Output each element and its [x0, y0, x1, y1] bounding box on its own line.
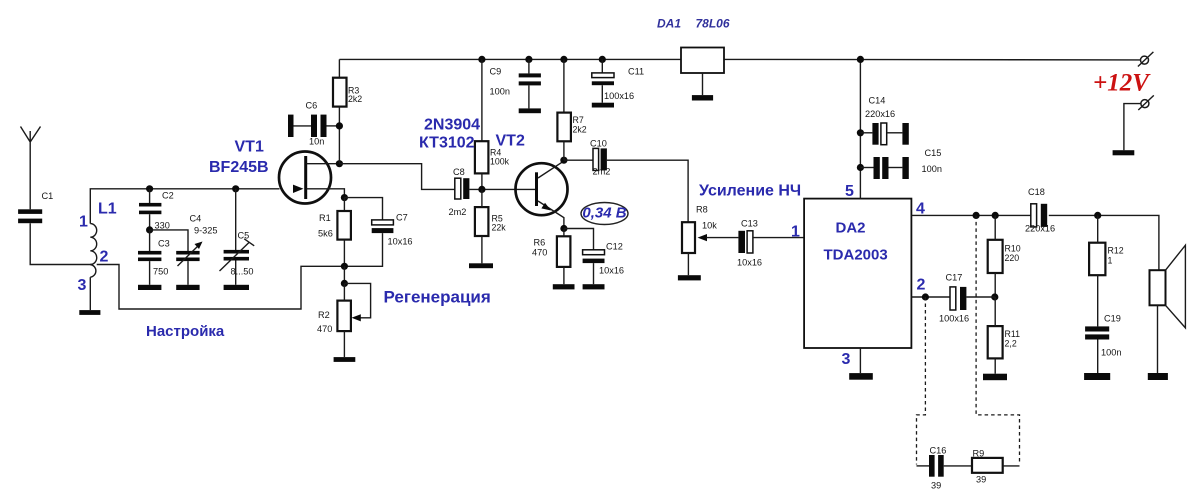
capacitor C2 330 [139, 191, 174, 231]
svg-text:R8: R8 [696, 205, 708, 215]
terminal ground return [1138, 95, 1154, 110]
wire VT1 drain [307, 163, 340, 165]
svg-text:2N3904: 2N3904 [424, 117, 480, 134]
wire wiper node into R2 [343, 283, 345, 300]
wire R12 to C19 [1097, 275, 1099, 326]
wire C12 to ground [593, 263, 595, 284]
capacitor C17 100x16 [939, 273, 969, 324]
svg-text:470: 470 [532, 248, 547, 258]
capacitor C13 10x16 [737, 219, 762, 268]
wire rail to R4 [481, 59, 483, 141]
svg-text:R6: R6 [534, 238, 546, 248]
svg-text:C7: C7 [396, 213, 408, 223]
capacitor C8 2m2 [449, 167, 470, 217]
node R2 wiper junction [341, 280, 348, 287]
svg-text:R10: R10 [1005, 244, 1021, 254]
wire R8 wiper to C13 [707, 237, 739, 239]
wire C8 to base node [469, 188, 536, 190]
capacitor C16 39 [917, 446, 947, 491]
wire R6 to ground [563, 267, 565, 284]
wire C5 branch [235, 189, 237, 250]
ground under DA1 [692, 95, 713, 100]
regulator DA1 78L06 [657, 17, 730, 74]
wire base node to R5 [481, 189, 483, 207]
wire R3 to drain [338, 107, 340, 164]
wire C7 to junction [344, 233, 382, 266]
wire C2 to C3 junction [149, 214, 151, 230]
capacitor C4 9-325 variable [176, 214, 217, 267]
resistor R10 220 [988, 240, 1021, 273]
ground under C5 [224, 285, 249, 290]
svg-text:C19: C19 [1104, 314, 1121, 324]
node C5 top junction [232, 185, 239, 192]
wire R2 to ground [343, 331, 345, 357]
resistor R12 1 [1089, 243, 1124, 276]
speaker BA1 [1150, 245, 1186, 328]
wire rail corner to R3 [338, 59, 340, 77]
node C6/R3 junction [336, 122, 343, 129]
inductor L1 [78, 201, 117, 295]
node rail pin5 [857, 56, 864, 63]
svg-text:VT2: VT2 [496, 133, 525, 150]
capacitor C9 100n [490, 67, 541, 97]
svg-text:C10: C10 [590, 139, 607, 149]
svg-text:330: 330 [155, 221, 170, 231]
svg-text:1: 1 [791, 224, 800, 241]
svg-text:КТ3102: КТ3102 [419, 135, 475, 152]
resistor R5 22k [475, 207, 506, 236]
wire junction to wiper node [343, 266, 345, 283]
wire R10 bottom to node [994, 273, 996, 297]
svg-text:C16: C16 [930, 446, 947, 456]
node VT1 source junction [341, 194, 348, 201]
svg-text:100k: 100k [490, 157, 510, 167]
wire L1 top to gate rail [90, 189, 279, 224]
svg-text:C5: C5 [238, 231, 250, 241]
wire R12 top [1097, 215, 1099, 242]
svg-text:220x16: 220x16 [1025, 224, 1055, 234]
svg-text:R2: R2 [318, 310, 330, 320]
svg-text:22k: 22k [492, 223, 507, 233]
wire C19 to ground [1097, 340, 1099, 374]
svg-text:C18: C18 [1028, 187, 1045, 197]
node VT2 collector junction [560, 157, 567, 164]
ground under C12 [583, 284, 605, 289]
svg-text:470: 470 [317, 324, 332, 334]
svg-text:Настройка: Настройка [146, 323, 225, 340]
node base junction [478, 186, 485, 193]
terminal +12V [1138, 52, 1154, 67]
wire C10 to R8 [607, 160, 688, 222]
ground under C3 [138, 285, 161, 290]
wire drain to C8 [339, 164, 454, 190]
node C14 branch [857, 129, 864, 136]
svg-text:C13: C13 [741, 219, 758, 229]
svg-text:1: 1 [79, 214, 88, 231]
capacitor C6 10n [288, 101, 339, 147]
svg-text:0,34 В: 0,34 В [582, 205, 626, 222]
svg-text:2,2: 2,2 [1005, 339, 1017, 349]
svg-text:C9: C9 [490, 67, 502, 77]
wire node to R11 [994, 297, 996, 326]
wire DA1 to ground [702, 73, 704, 95]
wire DA2 pin2 [911, 296, 949, 298]
ground under DA2 [849, 373, 873, 380]
node R1/C7/bus junction [341, 263, 348, 270]
svg-text:+12V: +12V [1093, 70, 1151, 97]
capacitor C18 220x16 [1025, 187, 1055, 234]
resistor R9 39 [972, 449, 1003, 485]
transistor VT2 [496, 133, 568, 229]
node VT2 emitter junction [560, 225, 567, 232]
wire R7 to collector [563, 141, 565, 160]
svg-text:C14: C14 [869, 96, 886, 106]
wire C1 to L1 tap2 [30, 223, 93, 264]
node C2 top junction [146, 185, 153, 192]
wire wiper loop [344, 283, 370, 317]
dashed wire pin4 to R9 [976, 215, 1019, 464]
node R12 branch [1094, 212, 1101, 219]
wire junction to C3 [149, 230, 151, 251]
svg-text:C2: C2 [162, 191, 174, 201]
svg-text:2k2: 2k2 [573, 125, 587, 135]
capacitor C12 10x16 [583, 242, 624, 276]
wire emitter node to R6 [563, 229, 565, 237]
IC DA2 TDA2003 [804, 199, 911, 348]
wire C11 to ground [601, 85, 603, 103]
resistor R6 470 [532, 236, 570, 267]
dashed wire pin2 to C16 [917, 297, 926, 465]
wire C9 to ground [528, 85, 530, 108]
svg-text:100n: 100n [490, 87, 510, 97]
svg-text:TDA2003: TDA2003 [824, 247, 888, 264]
svg-text:220: 220 [1005, 253, 1020, 263]
resistor R1 5k6 [318, 211, 351, 240]
wire C2 branch [149, 189, 151, 203]
wire R1 to junction [343, 240, 345, 267]
node 0.34V annotation [581, 203, 628, 225]
wire emitter node to C12 [564, 229, 594, 250]
node rail R7 [560, 56, 567, 63]
wire C5 to ground [235, 261, 237, 285]
svg-text:C17: C17 [946, 273, 963, 283]
wire DA2 pin5 to rail [859, 59, 861, 198]
wire C13 to DA2 pin1 [753, 237, 804, 239]
node C2/C3/C4 junction [146, 226, 153, 233]
svg-text:R9: R9 [973, 449, 985, 459]
node C15 branch [857, 164, 864, 171]
wire L1 bottom to ground [89, 277, 91, 310]
svg-text:100x16: 100x16 [939, 314, 969, 324]
svg-text:220x16: 220x16 [865, 109, 895, 119]
capacitor C1 [18, 191, 53, 223]
wire R5 to ground [481, 236, 483, 263]
capacitor C10 2m2 [590, 139, 610, 177]
svg-text:9-325: 9-325 [194, 226, 218, 236]
wire junction to C4 [150, 230, 188, 251]
ground under C19 [1084, 373, 1110, 380]
ground under L1 [79, 310, 100, 315]
resistor R7 2k2 [557, 113, 586, 142]
wire R8 to ground [687, 253, 689, 275]
capacitor C7 10x16 [372, 213, 413, 247]
ground under R6 [553, 284, 575, 289]
wire R10 top [994, 215, 996, 239]
wire terminal to ground [1124, 104, 1141, 151]
wire R4 to base node [481, 173, 483, 189]
wire source to R1 [343, 198, 345, 211]
svg-text:L1: L1 [98, 201, 117, 218]
svg-text:C15: C15 [925, 148, 942, 158]
resistor R3 2k2 [333, 78, 362, 107]
svg-text:2: 2 [100, 249, 109, 266]
transistor VT1 BF245B [209, 139, 331, 204]
resistor R4 100k [475, 141, 510, 173]
svg-text:3: 3 [78, 277, 87, 294]
ground under C9 [519, 108, 541, 113]
wire R11 to ground [994, 358, 996, 373]
svg-text:100n: 100n [922, 164, 942, 174]
svg-text:10x16: 10x16 [599, 266, 624, 276]
svg-text:Усиление НЧ: Усиление НЧ [699, 182, 801, 199]
wire C3 to ground [149, 261, 151, 285]
svg-text:DA2: DA2 [836, 220, 866, 237]
wire collector to C10 [564, 159, 593, 161]
wire top supply rail [339, 58, 1140, 61]
svg-text:VT1: VT1 [235, 139, 264, 156]
svg-text:2: 2 [917, 277, 926, 294]
svg-text:78L06: 78L06 [696, 17, 730, 31]
wire C11 branch [601, 59, 603, 72]
node rail R4 [478, 56, 485, 63]
capacitor C15 100n [860, 148, 942, 179]
svg-text:10x16: 10x16 [737, 258, 762, 268]
capacitor C3 750 variable [138, 239, 170, 277]
svg-text:DA1: DA1 [657, 17, 681, 31]
svg-text:100x16: 100x16 [604, 91, 634, 101]
wire DA2 pin3 to ground [859, 348, 861, 373]
svg-text:2k2: 2k2 [348, 94, 362, 104]
node pin4 dashed takeoff [973, 212, 980, 219]
svg-text:C1: C1 [42, 191, 54, 201]
svg-text:100n: 100n [1101, 348, 1121, 358]
svg-text:C6: C6 [306, 101, 318, 111]
wire R7 branch [563, 59, 565, 112]
svg-text:10n: 10n [309, 137, 324, 147]
wire source to C7 [344, 198, 382, 220]
svg-text:R12: R12 [1108, 246, 1124, 256]
node rail C11 [599, 56, 606, 63]
svg-text:Регенерация: Регенерация [384, 288, 491, 307]
capacitor C14 220x16 [860, 96, 908, 145]
svg-text:C8: C8 [453, 167, 465, 177]
wire C4 to ground [187, 261, 189, 285]
node VT1 drain junction [336, 160, 343, 167]
svg-text:3: 3 [842, 351, 851, 368]
svg-text:C4: C4 [190, 214, 202, 224]
wire speaker to ground [1157, 305, 1159, 373]
potentiometer R8 10k [682, 205, 717, 254]
ground under speaker [1148, 373, 1168, 380]
wire C9 branch [528, 59, 530, 73]
ground under R5 [469, 263, 493, 268]
node pin2 dashed takeoff [922, 293, 929, 300]
svg-text:2m2: 2m2 [449, 207, 467, 217]
svg-text:R1: R1 [319, 213, 331, 223]
capacitor C19 100n [1085, 314, 1121, 358]
wire C17 to node [966, 296, 994, 298]
capacitor C11 100x16 [592, 67, 644, 102]
wire tap2 to regeneration bus [97, 265, 344, 310]
svg-text:2m2: 2m2 [593, 167, 611, 177]
svg-text:1: 1 [1108, 256, 1113, 266]
resistor R11 2,2 [988, 326, 1020, 358]
svg-text:C11: C11 [628, 67, 644, 77]
node rail C9 [525, 56, 532, 63]
svg-text:5k6: 5k6 [318, 229, 333, 239]
svg-text:C3: C3 [158, 239, 170, 249]
svg-text:10k: 10k [702, 221, 717, 231]
node R10/R11/C17 [991, 293, 998, 300]
svg-text:39: 39 [931, 481, 941, 491]
svg-text:C12: C12 [606, 242, 623, 252]
ground under C11 [592, 103, 614, 108]
wire R9 to dashed [1003, 465, 1020, 467]
svg-text:BF245B: BF245B [209, 159, 269, 176]
ground under R8 [678, 275, 701, 280]
ground under terminal [1113, 150, 1135, 155]
svg-text:R7: R7 [573, 115, 584, 125]
node pin4 R10 [992, 212, 999, 219]
antenna WA1 [21, 127, 41, 210]
potentiometer R2 470 [317, 301, 361, 334]
capacitor C5 8...50 trimmer [220, 231, 255, 277]
svg-text:8...50: 8...50 [231, 267, 254, 277]
svg-text:39: 39 [976, 475, 986, 485]
wire DA2 pin4 output [911, 215, 1159, 270]
wire C16 to R9 [944, 465, 972, 467]
svg-text:5: 5 [845, 183, 854, 200]
ground under R11 [983, 374, 1007, 381]
wire VT1 source [307, 189, 345, 198]
svg-text:750: 750 [153, 267, 168, 277]
ground under R2 [334, 357, 356, 362]
ground under C4 [176, 285, 199, 290]
svg-text:R11: R11 [1005, 329, 1021, 339]
svg-text:10x16: 10x16 [388, 237, 413, 247]
